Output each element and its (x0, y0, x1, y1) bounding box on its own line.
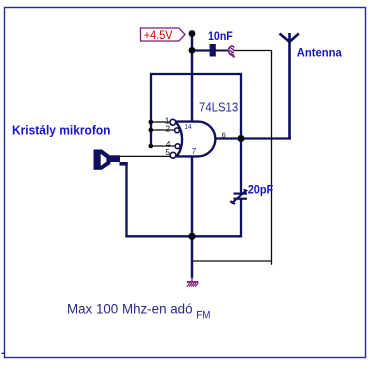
wire: gate input pin 2 stub (151, 129, 175, 131)
capacitor C1 10nF left plate (210, 44, 216, 57)
gate input pin circle 2 (175, 128, 180, 133)
microphone MIC body (94, 150, 103, 170)
wire: gate output pin 6 to antenna line (216, 137, 292, 139)
capacitor C1 10nF curved plate (229, 46, 232, 56)
svg-text:20pF: 20pF (248, 183, 274, 197)
wire: left vertical (ties inputs 1,2,4 to top rail) (150, 73, 152, 147)
gate input pin circle 4 (175, 144, 180, 149)
svg-text:Kristály mikrofon: Kristály mikrofon (12, 123, 111, 138)
svg-text:6: 6 (222, 130, 226, 139)
svg-text:+4.5V: +4.5V (144, 28, 173, 42)
gate input pin circle 5 (170, 152, 176, 158)
svg-text:7: 7 (192, 147, 197, 156)
node: input 2 junction dot (149, 128, 154, 133)
wire: mic top terminal to gate pin 5 (119, 155, 171, 157)
node: ground rail junction dot (188, 233, 195, 240)
wire: gate input pin 1 stub (151, 121, 171, 123)
trimmer capacitor 20pF top plate (234, 193, 248, 195)
border tick bottom-left (2, 352, 5, 354)
wire: gate pin 7 down to bottom rail (191, 156, 194, 236)
node: +4.5V junction dot (189, 30, 196, 37)
wire: right vertical upper (top rail to 20pF) (240, 73, 242, 193)
svg-text:74LS13: 74LS13 (199, 100, 238, 115)
node: input 1 junction dot (149, 120, 154, 125)
antenna mast (288, 33, 291, 140)
node: input 4 junction dot (149, 144, 154, 149)
trimmer capacitor 20pF arrow (232, 191, 246, 204)
wire: thin feedback horizontal to ground stem (192, 260, 272, 262)
wire: top rail from left branch to right branch (150, 73, 242, 75)
microphone lower terminal stub (120, 162, 128, 166)
wire: node to 10nF left plate (192, 49, 210, 51)
svg-text:Max 100 Mhz-en adó: Max 100 Mhz-en adó (67, 302, 193, 317)
wire: bottom rail (125, 235, 242, 237)
wire: mic lower terminal drop (125, 163, 127, 237)
gate input pin circle 1 (170, 119, 176, 125)
wire: 10nF between plates (216, 50, 229, 52)
svg-text:Antenna: Antenna (297, 46, 342, 60)
svg-text:2: 2 (165, 125, 170, 134)
wire: Vcc vertical from +4.5V node to gate pin 14 (191, 33, 194, 123)
wire: gate input pin 4 stub (151, 145, 176, 147)
microphone cone (102, 150, 111, 170)
wire: right vertical lower (20pF to bottom rail) (240, 199, 242, 237)
trimmer capacitor 20pF bottom plate (234, 198, 248, 200)
power flag +4.5V (141, 28, 186, 41)
wire: thin feedback from 10nF right plate going right (234, 50, 273, 52)
microphone neck (110, 155, 120, 162)
node: output junction dot (237, 135, 244, 142)
svg-text:14: 14 (184, 122, 191, 131)
wire: thin feedback vertical (271, 51, 273, 265)
svg-text:10nF: 10nF (208, 29, 233, 43)
svg-text:FM: FM (196, 310, 210, 322)
capacitor C1 curved plate hatching (230, 46, 235, 58)
antenna left arm (280, 34, 290, 42)
op-amp U1 74LS13 gate body (175, 122, 215, 157)
antenna right arm (290, 34, 299, 42)
ground symbol (187, 277, 199, 287)
wire: ground stem (191, 236, 194, 278)
node: 10nF branch junction dot (189, 47, 196, 54)
